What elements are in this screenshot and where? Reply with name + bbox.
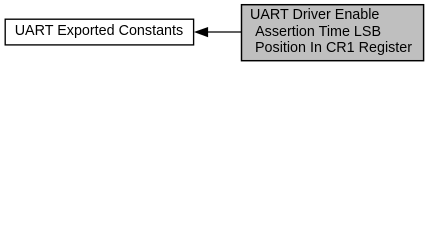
- node: UART Driver Enable Assertion Time LSB Position In CR1 Register box: [242, 5, 424, 61]
- node: UART Exported Constants box: [5, 19, 193, 45]
- arrowhead pointing at left box: [194, 27, 208, 37]
- label: right node line 2: [252, 24, 381, 40]
- label: right node line 3: [251, 40, 412, 56]
- edge wire: dependency arrow line: [208, 31, 242, 33]
- label: UART Exported Constants: [15, 23, 184, 39]
- label: right node line 1: [250, 7, 379, 23]
